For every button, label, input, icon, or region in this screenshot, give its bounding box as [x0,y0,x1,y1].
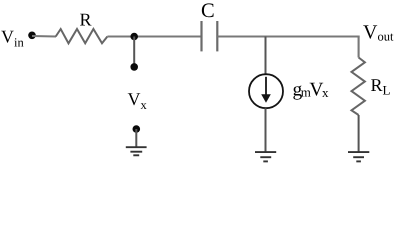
terminal dot Vx reference port [133,125,141,133]
capacitor C [202,21,218,51]
dependent current source gmVx [249,74,283,108]
svg-text:Vout: Vout [363,22,394,44]
resistor RL [352,58,365,116]
svg-text:RL: RL [371,75,391,98]
wire current source branch top [265,37,267,75]
wire RL to ground [358,115,360,152]
terminal dot Vin [28,32,36,40]
wire current source to ground [265,108,267,151]
svg-text:Vx: Vx [128,89,148,112]
junction dot node Vx [130,33,138,41]
wire Vin to resistor [32,35,56,38]
svg-text:R: R [80,10,92,30]
ground current source [255,152,276,161]
svg-text:gmVx: gmVx [293,79,329,100]
ground RL [348,152,369,161]
wire corner to RL [359,37,360,58]
svg-text:Vin: Vin [1,27,24,50]
wire Vx stub [133,37,135,67]
resistor R [56,29,108,43]
wire C to Vout corner [217,35,359,37]
current source arrow [261,77,271,103]
wire Vx reference stub [135,129,137,147]
wire R to capacitor [107,35,201,37]
svg-text:C: C [201,0,215,22]
terminal dot Vx stub [130,63,138,71]
ground Vx reference [126,147,147,155]
